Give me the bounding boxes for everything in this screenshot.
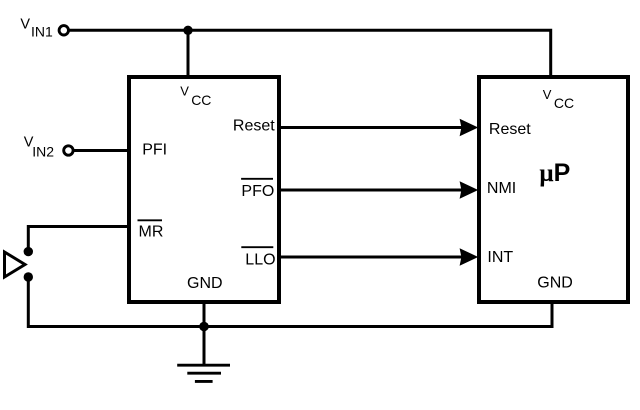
wire left IC GND down to ground symbol bbox=[203, 302, 206, 365]
svg-text:LLO: LLO bbox=[245, 252, 275, 269]
svg-text:PFI: PFI bbox=[142, 142, 167, 159]
svg-text:Reset: Reset bbox=[489, 121, 531, 138]
svg-text:μP: μP bbox=[539, 159, 570, 187]
node switch bottom contact bbox=[24, 272, 33, 281]
node switch top contact bbox=[24, 247, 33, 256]
wire LLO to uP INT bbox=[281, 256, 463, 259]
node junction on VIN1 wire bbox=[183, 26, 192, 35]
wire MR to switch top contact bbox=[28, 227, 128, 249]
arrowhead PFO bbox=[460, 181, 479, 199]
ground symbol bbox=[177, 365, 230, 381]
arrowhead LLO bbox=[460, 248, 479, 266]
svg-text:INT: INT bbox=[487, 249, 513, 266]
terminal VIN1 bbox=[59, 26, 68, 35]
node junction on ground rail bbox=[199, 322, 209, 332]
wire PFO to uP NMI bbox=[281, 189, 463, 192]
svg-text:Reset: Reset bbox=[233, 117, 275, 134]
svg-text:MR: MR bbox=[139, 224, 164, 241]
arrowhead Reset bbox=[460, 119, 479, 137]
pushbutton actuator triangle bbox=[5, 252, 26, 277]
wire VIN2 to PFI bbox=[74, 149, 129, 152]
svg-text:NMI: NMI bbox=[487, 180, 516, 197]
svg-text:GND: GND bbox=[537, 275, 573, 292]
supervisor IC box bbox=[129, 77, 279, 302]
svg-text:PFO: PFO bbox=[241, 183, 274, 200]
microprocessor box bbox=[479, 77, 628, 302]
wire Reset to uP Reset bbox=[281, 126, 463, 129]
svg-text:V: V bbox=[180, 83, 189, 98]
svg-text:CC: CC bbox=[191, 92, 211, 108]
svg-text:GND: GND bbox=[187, 275, 223, 292]
svg-text:IN1: IN1 bbox=[31, 24, 53, 40]
svg-text:IN2: IN2 bbox=[32, 144, 54, 160]
wire VIN1 to top-right corner down to uP VCC bbox=[69, 30, 551, 76]
wire junction down to left IC VCC bbox=[187, 30, 190, 76]
svg-text:CC: CC bbox=[554, 95, 574, 111]
svg-text:V: V bbox=[543, 87, 552, 102]
wire switch bottom to ground rail to uP GND bbox=[28, 277, 552, 327]
svg-text:V: V bbox=[20, 16, 30, 32]
terminal VIN2 bbox=[64, 146, 73, 155]
